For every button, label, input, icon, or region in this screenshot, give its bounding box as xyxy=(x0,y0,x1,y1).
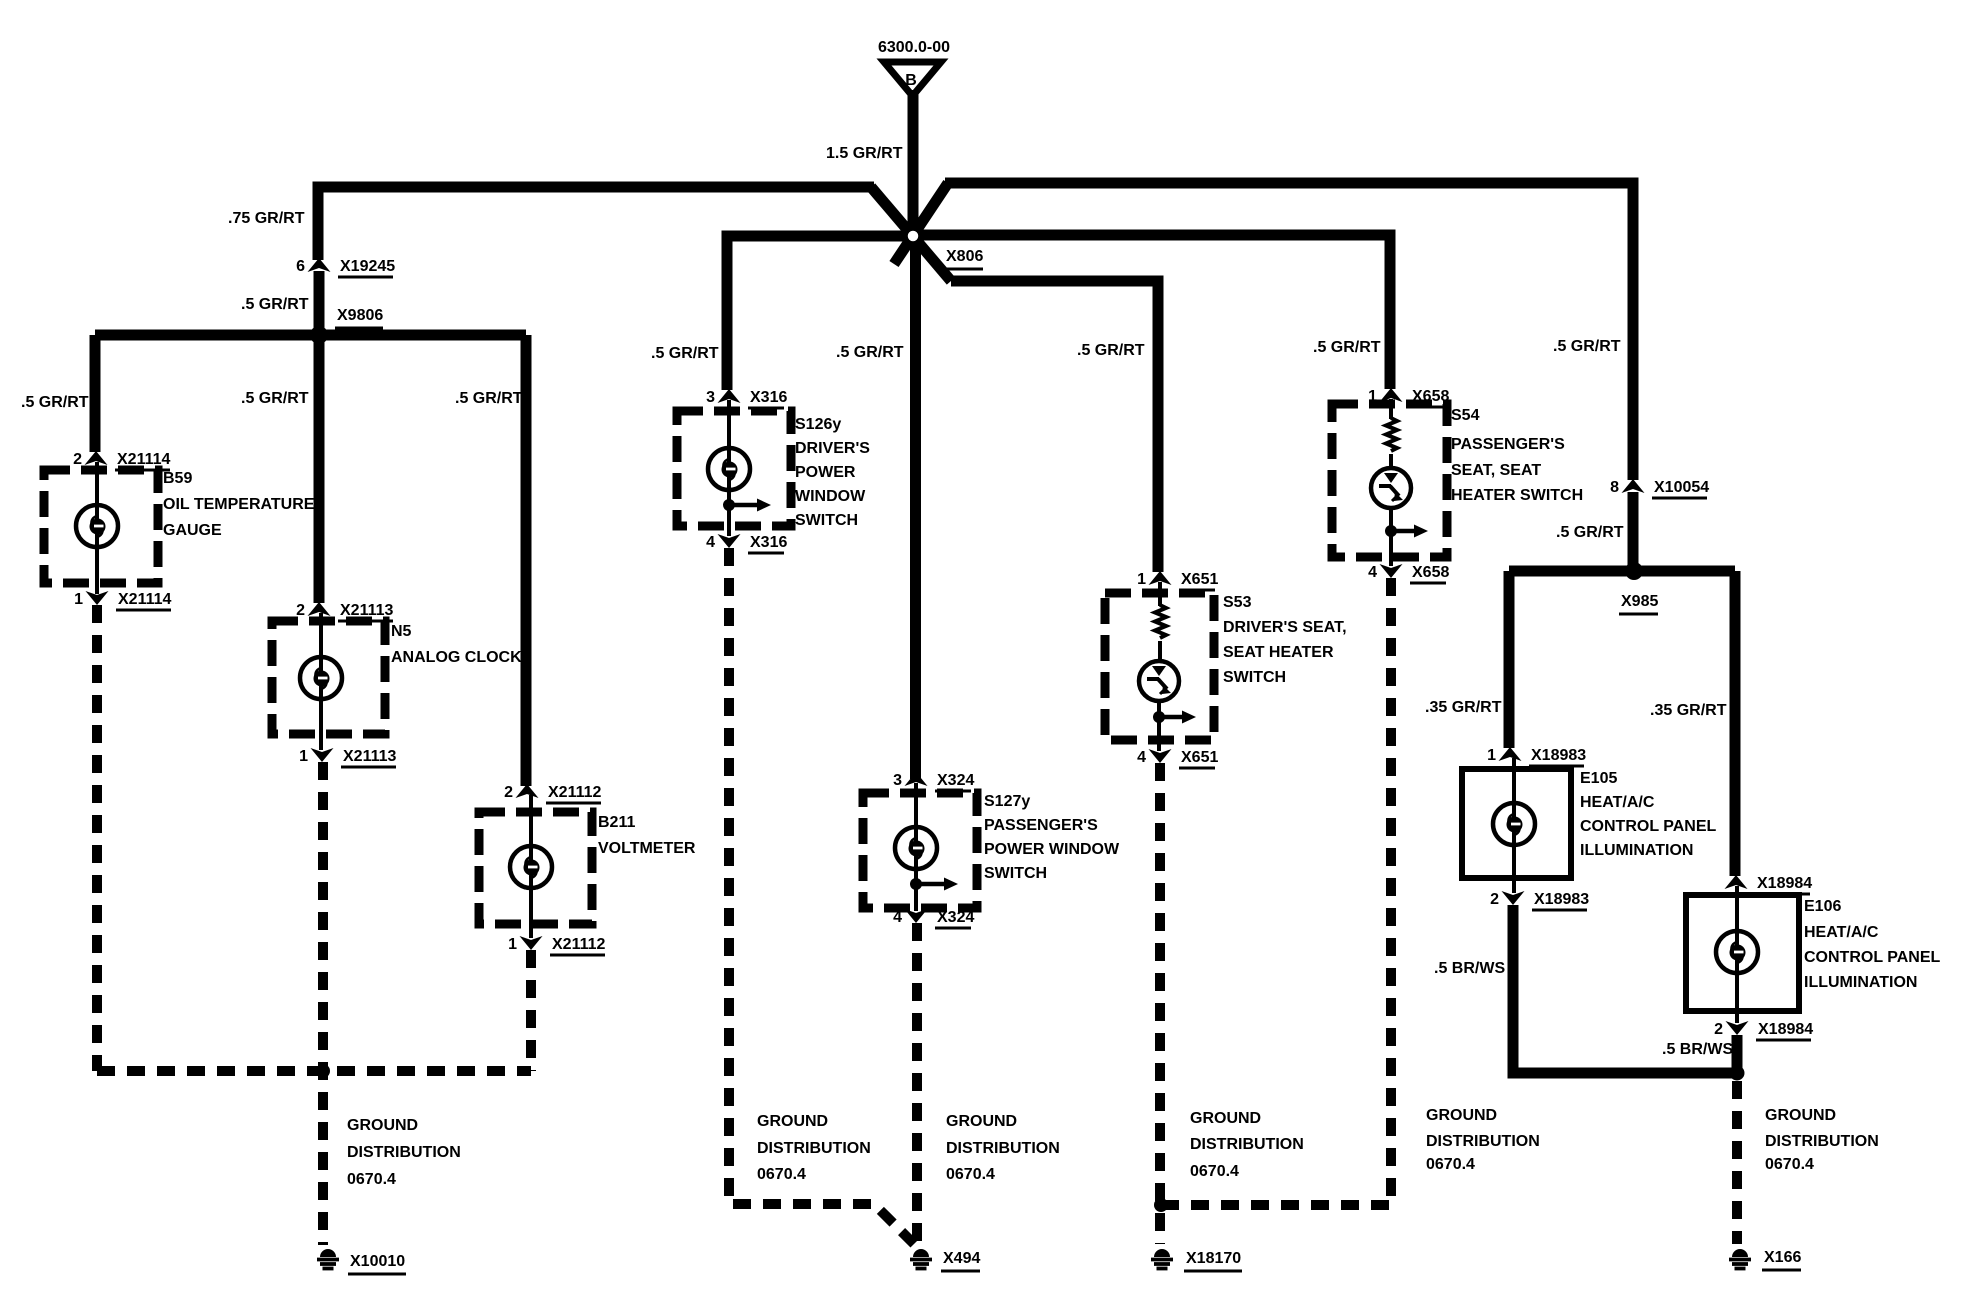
node X9806 junction dot xyxy=(310,326,328,344)
label GROUND DISTRIBUTION 0670.4 (S127y) xyxy=(946,1113,1060,1183)
resistor element in S53 xyxy=(1155,605,1166,638)
svg-text:X19245: X19245 xyxy=(340,258,395,275)
svg-text:.5 GR/RT: .5 GR/RT xyxy=(1313,339,1381,356)
node X985 junction dot xyxy=(1625,562,1643,580)
ground symbol X166 xyxy=(1729,1249,1751,1269)
connector X10054 pin 8 xyxy=(1610,479,1709,498)
svg-text:.5 GR/RT: .5 GR/RT xyxy=(1553,338,1621,355)
wire: top left horizontal feed to instrument cluster branch xyxy=(318,187,874,260)
connector X21112 pin 1 (B211 bottom) xyxy=(508,936,605,955)
svg-text:X9806: X9806 xyxy=(337,307,383,324)
junction dot on ground run at N5 column xyxy=(316,1064,330,1078)
svg-text:.35 GR/RT: .35 GR/RT xyxy=(1650,702,1727,719)
svg-text:X10010: X10010 xyxy=(350,1253,405,1270)
svg-text:1: 1 xyxy=(1137,571,1146,588)
svg-text:PASSENGER'S: PASSENGER'S xyxy=(984,817,1098,834)
heater switch indicator in S53 xyxy=(1139,661,1179,701)
connector X21112 pin 2 (B211 top) xyxy=(504,784,601,803)
svg-text:1: 1 xyxy=(508,936,517,953)
svg-text:3: 3 xyxy=(893,772,902,789)
svg-text:X21112: X21112 xyxy=(548,784,602,801)
svg-text:.5 GR/RT: .5 GR/RT xyxy=(455,390,523,407)
connector X21114 pin 2 (B59 top) xyxy=(73,451,170,470)
svg-text:X651: X651 xyxy=(1181,749,1218,766)
label S127y PASSENGER'S POWER WINDOW SWITCH xyxy=(984,793,1120,882)
wire: dashed ground run down to ground X166 xyxy=(1732,1081,1742,1244)
svg-text:.5 GR/RT: .5 GR/RT xyxy=(836,344,904,361)
svg-text:X316: X316 xyxy=(750,389,787,406)
svg-text:0670.4: 0670.4 xyxy=(1426,1156,1475,1173)
connector X651 pin 1 (S53 top) xyxy=(1137,571,1218,590)
svg-text:SEAT HEATER: SEAT HEATER xyxy=(1223,644,1334,661)
wire: dashed ground run from S53 pin 4 to ground X18170 xyxy=(1155,763,1165,1244)
svg-text:4: 4 xyxy=(1368,564,1377,581)
power source triangle B (circuit 6300.0-00) xyxy=(878,39,950,96)
wire: E106 pin 2 down to ground junction xyxy=(1732,1035,1743,1068)
connector X19245 pin 6 xyxy=(296,258,395,277)
svg-text:E106: E106 xyxy=(1804,898,1841,915)
svg-text:ILLUMINATION: ILLUMINATION xyxy=(1580,842,1693,859)
label S126y DRIVER'S POWER WINDOW SWITCH xyxy=(795,416,870,529)
wire: B59 internal lead bottom xyxy=(95,546,99,594)
svg-text:.5 GR/RT: .5 GR/RT xyxy=(21,394,89,411)
svg-text:N5: N5 xyxy=(391,623,412,640)
svg-text:3: 3 xyxy=(706,389,715,406)
connector X658 pin 4 (S54 bottom) xyxy=(1368,564,1449,583)
svg-text:DISTRIBUTION: DISTRIBUTION xyxy=(946,1140,1060,1157)
connector X658 pin 1 (S54 top) xyxy=(1368,388,1449,407)
lamp element of S126y switch illumination xyxy=(708,448,750,490)
label S54 PASSENGER'S SEAT, SEAT HEATER SWITCH xyxy=(1451,407,1583,504)
wire: X10054 down to junction X985 xyxy=(1628,492,1639,571)
lamp element of E106 illumination xyxy=(1716,931,1758,973)
resistor element in S54 xyxy=(1386,418,1397,451)
wire: diagonal through X806 from upper-right feed (y183) xyxy=(894,183,948,264)
svg-text:DISTRIBUTION: DISTRIBUTION xyxy=(1426,1133,1540,1150)
wire: dashed ground run from S54 pin 4 to X18170 horizontal xyxy=(1386,578,1396,1205)
wire: S54 internal lead top xyxy=(1389,399,1393,419)
ground symbol X494 xyxy=(910,1249,932,1269)
svg-text:WINDOW: WINDOW xyxy=(795,488,866,505)
svg-text:SWITCH: SWITCH xyxy=(1223,669,1286,686)
label GROUND DISTRIBUTION 0670.4 (S126y) xyxy=(757,1113,871,1183)
svg-text:.5 GR/RT: .5 GR/RT xyxy=(651,345,719,362)
wire: X19245 to junction X9806 xyxy=(314,271,325,335)
label GROUND DISTRIBUTION 0670.4 (S54) xyxy=(1426,1107,1540,1173)
wire: X985 down-leg to E105 xyxy=(1504,571,1515,748)
svg-text:X18983: X18983 xyxy=(1531,747,1586,764)
connector X18983 pin 1 (E105 top) xyxy=(1487,747,1586,766)
svg-text:ILLUMINATION: ILLUMINATION xyxy=(1804,974,1917,991)
ground symbol X18170 xyxy=(1151,1249,1173,1269)
wire: X9806 down-leg to B211 voltmeter xyxy=(521,335,532,786)
svg-text:CONTROL PANEL: CONTROL PANEL xyxy=(1804,949,1941,966)
wire: horizontal feed X806 to S126y branch xyxy=(727,236,913,390)
svg-text:X18983: X18983 xyxy=(1534,891,1589,908)
svg-text:X21113: X21113 xyxy=(340,602,394,619)
svg-text:X21112: X21112 xyxy=(552,936,606,953)
svg-text:2: 2 xyxy=(296,602,305,619)
svg-text:X21114: X21114 xyxy=(117,451,171,468)
wire: N5 internal lead bottom xyxy=(319,698,323,750)
label X18170 ground name xyxy=(1184,1250,1242,1271)
label GROUND DISTRIBUTION 0670.4 (S53) xyxy=(1190,1110,1304,1180)
wire: S54 internal mid lead xyxy=(1389,454,1393,470)
svg-text:2: 2 xyxy=(1490,891,1499,908)
label X494 ground name xyxy=(941,1250,980,1271)
arrow tap inside S54 to switch contact xyxy=(1385,525,1428,538)
svg-text:B59: B59 xyxy=(163,470,192,487)
label E106 HEAT/A/C CONTROL PANEL ILLUMINATION xyxy=(1804,898,1941,991)
label S53 DRIVER'S SEAT, SEAT HEATER SWITCH xyxy=(1223,594,1347,686)
svg-text:SWITCH: SWITCH xyxy=(984,865,1047,882)
connector X316 pin 4 (S126y bottom) xyxy=(706,534,787,553)
svg-text:.5 GR/RT: .5 GR/RT xyxy=(241,296,309,313)
svg-text:ANALOG CLOCK: ANALOG CLOCK xyxy=(391,649,522,666)
svg-text:POWER WINDOW: POWER WINDOW xyxy=(984,841,1120,858)
svg-text:.5 BR/WS: .5 BR/WS xyxy=(1662,1041,1733,1058)
svg-text:DRIVER'S SEAT,: DRIVER'S SEAT, xyxy=(1223,619,1347,636)
svg-text:X10054: X10054 xyxy=(1654,479,1709,496)
svg-text:X166: X166 xyxy=(1764,1249,1801,1266)
svg-text:HEATER SWITCH: HEATER SWITCH xyxy=(1451,487,1583,504)
svg-text:S53: S53 xyxy=(1223,594,1252,611)
wire: S53 internal mid lead xyxy=(1158,641,1162,663)
svg-text:6: 6 xyxy=(296,258,305,275)
svg-text:PASSENGER'S: PASSENGER'S xyxy=(1451,436,1565,453)
wire: E105 internal lead top xyxy=(1512,758,1516,804)
wire: N5 internal lead top xyxy=(319,613,323,658)
wire: dashed ground run from N5 pin 1 to ground X10010 xyxy=(318,762,328,1245)
label X10010 ground name xyxy=(348,1253,406,1274)
svg-text:X324: X324 xyxy=(937,772,974,789)
junction dot on ground run at S53 column xyxy=(1154,1198,1168,1212)
wire: dashed ground run from B211 pin 1 xyxy=(526,950,536,1071)
svg-text:.5 GR/RT: .5 GR/RT xyxy=(241,390,309,407)
wire: horizontal feed to S53 branch xyxy=(951,281,1158,572)
connector X18983 pin 2 (E105 bottom) xyxy=(1490,891,1589,910)
svg-text:0670.4: 0670.4 xyxy=(347,1171,396,1188)
wire: dashed ground run from S127y pin 4 to ground X494 xyxy=(912,923,922,1244)
svg-text:S54: S54 xyxy=(1451,407,1480,424)
wire: B59 internal lead top xyxy=(95,462,99,506)
svg-text:.35 GR/RT: .35 GR/RT xyxy=(1425,699,1502,716)
label N5 ANALOG CLOCK xyxy=(391,623,522,666)
component box B211 (dashed) xyxy=(479,812,592,924)
svg-text:CONTROL PANEL: CONTROL PANEL xyxy=(1580,818,1717,835)
component box N5 (dashed) xyxy=(272,621,385,734)
svg-text:DRIVER'S: DRIVER'S xyxy=(795,440,870,457)
svg-text:X18984: X18984 xyxy=(1758,1021,1813,1038)
wire: X985 down-leg to E106 xyxy=(1730,571,1741,876)
wire: main feed from triangle B down to junction X806 xyxy=(908,90,919,236)
wire: S53 internal lead bottom xyxy=(1157,701,1161,751)
svg-text:HEAT/A/C: HEAT/A/C xyxy=(1804,924,1879,941)
svg-text:X985: X985 xyxy=(1621,593,1658,610)
svg-text:S127y: S127y xyxy=(984,793,1030,810)
label X985 node name xyxy=(1619,593,1658,614)
wire: X985 distribution horizontal xyxy=(1509,566,1735,577)
svg-text:0670.4: 0670.4 xyxy=(1765,1156,1814,1173)
svg-text:GAUGE: GAUGE xyxy=(163,522,222,539)
wire: junction X806 down to S127y pin 3 xyxy=(910,236,921,779)
svg-text:4: 4 xyxy=(893,909,902,926)
connector X324 pin 4 (S127y bottom) xyxy=(893,909,974,928)
junction X806 node circle xyxy=(905,228,921,244)
svg-text:4: 4 xyxy=(706,534,715,551)
wire: B211 internal lead bottom xyxy=(529,887,533,938)
component box S54 (dashed) xyxy=(1332,404,1447,557)
svg-text:GROUND: GROUND xyxy=(757,1113,828,1130)
lamp element of S127y switch illumination xyxy=(895,827,937,869)
svg-text:S126y: S126y xyxy=(795,416,841,433)
svg-text:2: 2 xyxy=(504,784,513,801)
label X806 node name xyxy=(944,248,983,269)
label X9806 node name xyxy=(335,307,383,328)
svg-text:X316: X316 xyxy=(750,534,787,551)
svg-text:2: 2 xyxy=(1714,1021,1723,1038)
wire: X9806 down-leg to B59 oil temperature gauge xyxy=(90,335,101,452)
svg-text:X658: X658 xyxy=(1412,564,1449,581)
ground symbol X10010 xyxy=(317,1249,339,1269)
label X166 ground name xyxy=(1762,1249,1801,1270)
wire: S126y internal lead top xyxy=(727,400,731,449)
svg-text:.5 GR/RT: .5 GR/RT xyxy=(1556,524,1624,541)
svg-text:X806: X806 xyxy=(946,248,983,265)
svg-text:VOLTMETER: VOLTMETER xyxy=(598,840,696,857)
svg-text:1: 1 xyxy=(299,748,308,765)
connector X651 pin 4 (S53 bottom) xyxy=(1137,749,1218,768)
svg-text:X494: X494 xyxy=(943,1250,980,1267)
wire: dashed ground run from B59 pin 1 xyxy=(92,605,102,1071)
svg-text:X21113: X21113 xyxy=(343,748,397,765)
wire: S53 internal lead top xyxy=(1158,582,1162,606)
svg-text:X21114: X21114 xyxy=(118,591,172,608)
svg-text:OIL TEMPERATURE: OIL TEMPERATURE xyxy=(163,496,315,513)
wire: S126y internal lead bottom xyxy=(727,489,731,536)
lamp element of B211 voltmeter xyxy=(510,846,552,888)
wire: S127y internal lead top xyxy=(914,783,918,828)
label B211 VOLTMETER xyxy=(598,814,696,857)
svg-text:DISTRIBUTION: DISTRIBUTION xyxy=(757,1140,871,1157)
svg-text:B211: B211 xyxy=(598,814,635,831)
svg-text:X651: X651 xyxy=(1181,571,1218,588)
svg-text:4: 4 xyxy=(1137,749,1146,766)
svg-text:X18170: X18170 xyxy=(1186,1250,1241,1267)
svg-text:GROUND: GROUND xyxy=(1190,1110,1261,1127)
heater switch indicator in S54 xyxy=(1371,468,1411,508)
svg-text:.5 GR/RT: .5 GR/RT xyxy=(1077,342,1145,359)
svg-text:DISTRIBUTION: DISTRIBUTION xyxy=(347,1144,461,1161)
wire: B211 internal lead top xyxy=(529,795,533,847)
svg-text:SWITCH: SWITCH xyxy=(795,512,858,529)
svg-text:0670.4: 0670.4 xyxy=(757,1166,806,1183)
svg-text:DISTRIBUTION: DISTRIBUTION xyxy=(1190,1136,1304,1153)
component box S53 (dashed) xyxy=(1105,593,1214,740)
svg-text:HEAT/A/C: HEAT/A/C xyxy=(1580,794,1655,811)
component box E105 (solid) xyxy=(1462,769,1571,878)
wire: E105 internal lead bottom xyxy=(1512,844,1516,893)
wire: E105 pin 2 down and right to ground junction xyxy=(1513,905,1737,1073)
wire: top right horizontal feed to E105/E106 branch xyxy=(945,183,1633,480)
svg-text:1.5 GR/RT: 1.5 GR/RT xyxy=(826,145,903,162)
svg-text:0670.4: 0670.4 xyxy=(1190,1163,1239,1180)
lamp element of E105 illumination xyxy=(1493,803,1535,845)
lamp element of N5 analog clock xyxy=(300,657,342,699)
wire: dashed ground horizontal from S54 run to X18170 xyxy=(1161,1200,1391,1210)
wire: E106 internal lead bottom xyxy=(1735,972,1739,1023)
wire: S54 internal lead bottom xyxy=(1389,508,1393,566)
svg-text:GROUND: GROUND xyxy=(347,1117,418,1134)
arrow tap inside S127y to switch contact xyxy=(910,878,958,891)
connector X21113 pin 2 (N5 top) xyxy=(296,602,393,621)
svg-text:X18984: X18984 xyxy=(1757,875,1812,892)
svg-text:2: 2 xyxy=(73,451,82,468)
wire: E106 internal lead top xyxy=(1735,886,1739,932)
svg-text:POWER: POWER xyxy=(795,464,856,481)
svg-text:.75 GR/RT: .75 GR/RT xyxy=(228,210,305,227)
svg-text:DISTRIBUTION: DISTRIBUTION xyxy=(1765,1133,1879,1150)
component box S126y (dashed) xyxy=(677,411,791,526)
junction dot at E105/E106 ground tie xyxy=(1730,1066,1745,1081)
wire: X9806 distribution horizontal xyxy=(95,330,526,341)
svg-text:.5 BR/WS: .5 BR/WS xyxy=(1434,960,1505,977)
arrow tap inside S53 to switch contact xyxy=(1153,711,1196,724)
label GROUND DISTRIBUTION 0670.4 (E106) xyxy=(1765,1107,1879,1173)
wire: X9806 down-leg to N5 analog clock xyxy=(314,335,325,603)
svg-text:X324: X324 xyxy=(937,909,974,926)
svg-text:1: 1 xyxy=(1487,747,1496,764)
lamp element of B59 oil temperature gauge xyxy=(76,505,118,547)
label E105 HEAT/A/C CONTROL PANEL ILLUMINATION xyxy=(1580,770,1717,859)
svg-text:SEAT, SEAT: SEAT, SEAT xyxy=(1451,462,1541,479)
connector X316 pin 3 (S126y top) xyxy=(706,389,787,408)
component box B59 (dashed) xyxy=(44,470,158,583)
svg-text:GROUND: GROUND xyxy=(1765,1107,1836,1124)
svg-text:E105: E105 xyxy=(1580,770,1617,787)
wire: S127y internal lead bottom xyxy=(914,868,918,911)
arrow tap inside S126y to switch contact xyxy=(723,499,771,512)
wire: dashed ground distribution horizontal (B59/N5/B211) xyxy=(97,1066,531,1076)
svg-text:6300.0-00: 6300.0-00 xyxy=(878,39,950,56)
component box S127y (dashed) xyxy=(863,793,977,908)
connector X21113 pin 1 (N5 bottom) xyxy=(299,748,396,767)
wire: dashed ground run from S126y pin 4 to ground X494 xyxy=(729,548,914,1244)
svg-text:8: 8 xyxy=(1610,479,1619,496)
svg-text:GROUND: GROUND xyxy=(1426,1107,1497,1124)
connector X18984 (E106 top) xyxy=(1725,875,1813,894)
wire: horizontal feed X806 to S54 branch xyxy=(913,235,1390,389)
connector X18984 pin 2 (E106 bottom) xyxy=(1714,1021,1813,1040)
connector X21114 pin 1 (B59 bottom) xyxy=(74,591,171,610)
svg-text:0670.4: 0670.4 xyxy=(946,1166,995,1183)
wire: diagonal through X806 linking left feed (y187) to S53 feed (y281) xyxy=(871,187,951,281)
label B59 OIL TEMPERATURE GAUGE xyxy=(163,470,315,539)
component box E106 (solid) xyxy=(1686,895,1799,1011)
svg-text:1: 1 xyxy=(74,591,83,608)
svg-text:GROUND: GROUND xyxy=(946,1113,1017,1130)
svg-text:B: B xyxy=(905,72,917,89)
label GROUND DISTRIBUTION 0670.4 (left cluster) xyxy=(347,1117,461,1188)
connector X324 pin 3 (S127y top) xyxy=(893,772,974,791)
